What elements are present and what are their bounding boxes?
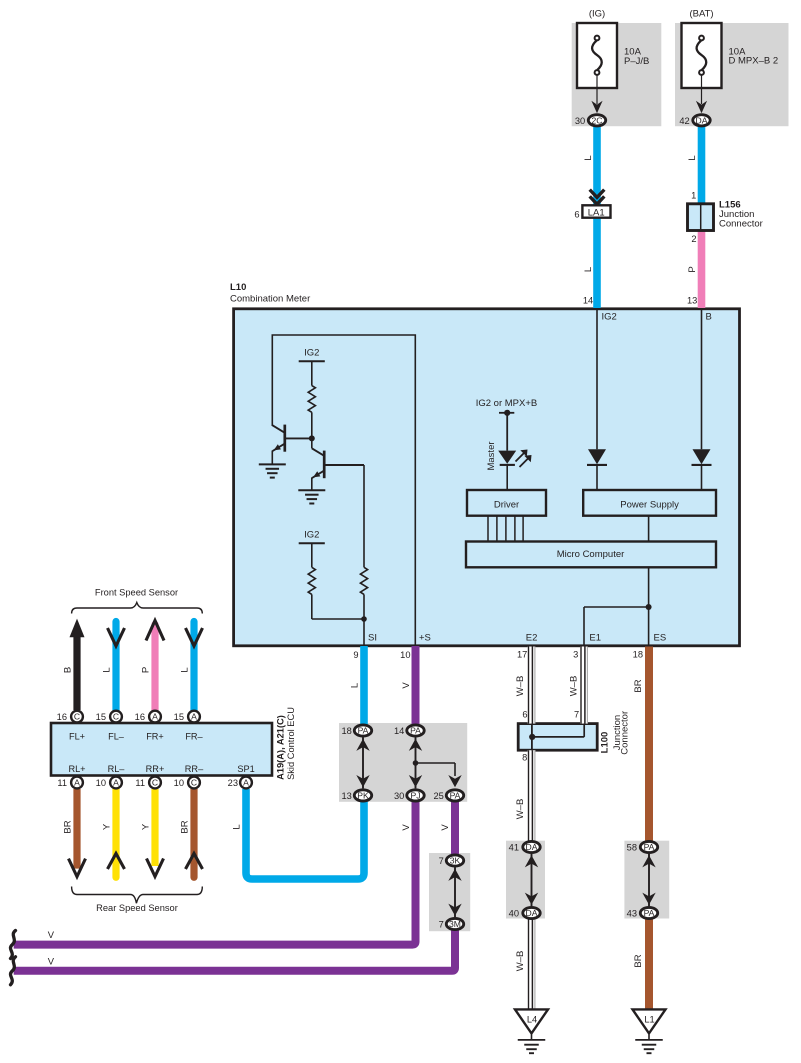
svg-text:A: A: [113, 778, 119, 788]
svg-text:P–J/B: P–J/B: [624, 56, 649, 67]
svg-text:Connector: Connector: [719, 219, 763, 230]
svg-text:P: P: [140, 667, 151, 673]
svg-text:30: 30: [575, 116, 585, 126]
svg-text:IG2: IG2: [304, 348, 319, 359]
svg-text:Y: Y: [140, 823, 151, 830]
svg-text:L: L: [179, 667, 190, 672]
svg-text:FL–: FL–: [108, 732, 125, 742]
svg-text:P: P: [687, 266, 698, 272]
svg-text:6: 6: [574, 209, 579, 219]
svg-text:Y: Y: [101, 823, 112, 830]
svg-text:40: 40: [509, 909, 519, 919]
svg-text:1: 1: [691, 190, 696, 200]
svg-text:PK: PK: [357, 791, 369, 801]
svg-text:RR–: RR–: [185, 764, 204, 774]
svg-text:10: 10: [400, 650, 410, 660]
svg-text:PA: PA: [644, 842, 655, 852]
svg-text:L: L: [101, 667, 112, 672]
svg-text:L100: L100: [600, 732, 611, 754]
svg-text:C: C: [191, 778, 197, 788]
svg-text:6: 6: [522, 710, 527, 720]
svg-text:13: 13: [687, 296, 697, 306]
svg-text:Connector: Connector: [620, 711, 631, 755]
svg-text:(IG): (IG): [589, 9, 605, 20]
svg-text:43: 43: [627, 909, 637, 919]
svg-text:BR: BR: [179, 820, 190, 833]
svg-text:L: L: [687, 155, 698, 160]
svg-text:16: 16: [135, 712, 145, 722]
svg-text:Rear Speed Sensor: Rear Speed Sensor: [96, 903, 178, 913]
svg-text:E2: E2: [526, 633, 538, 644]
svg-text:L: L: [231, 824, 242, 829]
svg-text:A: A: [243, 778, 249, 788]
svg-text:10: 10: [96, 778, 106, 788]
svg-text:L4: L4: [527, 1014, 537, 1024]
svg-text:PA: PA: [644, 908, 655, 918]
svg-text:PA: PA: [450, 791, 461, 801]
svg-text:15: 15: [96, 712, 106, 722]
svg-text:+S: +S: [419, 633, 431, 644]
svg-text:W–B: W–B: [515, 799, 526, 820]
svg-text:W–B: W–B: [515, 951, 526, 972]
svg-text:SP1: SP1: [237, 764, 254, 774]
svg-text:3M: 3M: [449, 919, 461, 929]
svg-text:L10: L10: [230, 282, 246, 293]
svg-text:DA: DA: [526, 908, 538, 918]
svg-text:58: 58: [627, 843, 637, 853]
svg-text:3K: 3K: [450, 856, 461, 866]
svg-text:23: 23: [228, 778, 238, 788]
svg-text:DA: DA: [696, 115, 708, 125]
svg-text:7: 7: [439, 920, 444, 930]
svg-text:PJ: PJ: [410, 791, 420, 801]
svg-text:11: 11: [135, 778, 145, 788]
svg-text:SI: SI: [368, 633, 377, 644]
svg-text:BR: BR: [62, 820, 73, 833]
svg-text:B: B: [706, 312, 712, 323]
svg-text:18: 18: [633, 650, 643, 660]
svg-text:IG2 or MPX+B: IG2 or MPX+B: [476, 398, 538, 409]
svg-text:Front Speed Sensor: Front Speed Sensor: [95, 588, 178, 598]
svg-text:V: V: [401, 682, 412, 689]
svg-text:42: 42: [679, 116, 689, 126]
svg-text:FR–: FR–: [185, 732, 203, 742]
svg-text:Driver: Driver: [494, 499, 519, 510]
svg-text:W–B: W–B: [568, 676, 579, 697]
svg-text:9: 9: [353, 650, 358, 660]
svg-text:18: 18: [341, 726, 351, 736]
svg-text:RL+: RL+: [68, 764, 85, 774]
svg-text:2: 2: [691, 234, 696, 244]
svg-text:Micro Computer: Micro Computer: [557, 549, 625, 560]
svg-text:(BAT): (BAT): [689, 9, 713, 20]
svg-text:RL–: RL–: [108, 764, 126, 774]
svg-text:FL+: FL+: [69, 732, 85, 742]
svg-text:C: C: [152, 778, 158, 788]
svg-text:PA: PA: [358, 726, 369, 736]
svg-text:Master: Master: [486, 441, 497, 470]
svg-text:D MPX–B 2: D MPX–B 2: [729, 56, 779, 67]
svg-text:IG2: IG2: [602, 312, 617, 323]
svg-text:2C: 2C: [592, 115, 603, 125]
svg-text:C: C: [74, 712, 80, 722]
svg-text:V: V: [401, 824, 412, 831]
svg-text:13: 13: [341, 791, 351, 801]
svg-text:E1: E1: [589, 633, 601, 644]
svg-text:10: 10: [174, 778, 184, 788]
svg-text:L: L: [583, 155, 594, 160]
svg-text:17: 17: [517, 650, 527, 660]
svg-text:FR+: FR+: [146, 732, 164, 742]
svg-text:Power Supply: Power Supply: [620, 499, 679, 510]
svg-text:A19(A), A21(C): A19(A), A21(C): [275, 715, 285, 780]
svg-text:41: 41: [509, 843, 519, 853]
svg-text:14: 14: [394, 726, 404, 736]
svg-text:V: V: [48, 956, 55, 967]
svg-text:30: 30: [394, 791, 404, 801]
svg-text:15: 15: [174, 712, 184, 722]
svg-text:3: 3: [573, 650, 578, 660]
svg-text:7: 7: [439, 856, 444, 866]
svg-text:DA: DA: [526, 842, 538, 852]
svg-text:7: 7: [574, 710, 579, 720]
svg-text:IG2: IG2: [304, 530, 319, 541]
svg-text:BR: BR: [633, 954, 644, 967]
svg-text:V: V: [48, 929, 55, 940]
svg-text:14: 14: [583, 296, 593, 306]
svg-text:ES: ES: [654, 633, 667, 644]
svg-text:LA1: LA1: [588, 207, 605, 218]
svg-text:16: 16: [57, 712, 67, 722]
svg-text:A: A: [74, 778, 80, 788]
svg-text:Combination Meter: Combination Meter: [230, 294, 310, 305]
svg-text:W–B: W–B: [515, 676, 526, 697]
svg-text:A: A: [152, 712, 158, 722]
svg-text:L: L: [349, 683, 360, 688]
svg-text:L: L: [583, 267, 594, 272]
svg-text:V: V: [440, 824, 451, 831]
svg-text:B: B: [62, 667, 73, 673]
svg-text:11: 11: [57, 778, 67, 788]
svg-text:25: 25: [433, 791, 443, 801]
svg-text:PA: PA: [410, 726, 421, 736]
svg-text:8: 8: [522, 753, 527, 763]
svg-text:Skid Control ECU: Skid Control ECU: [286, 707, 296, 780]
svg-text:C: C: [113, 712, 119, 722]
svg-text:L1: L1: [644, 1014, 654, 1024]
svg-text:A: A: [191, 712, 197, 722]
svg-text:RR+: RR+: [146, 764, 165, 774]
svg-text:BR: BR: [633, 679, 644, 692]
